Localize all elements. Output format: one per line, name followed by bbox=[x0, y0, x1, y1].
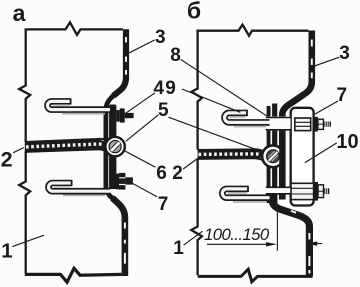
svg-text:100...150: 100...150 bbox=[204, 225, 270, 244]
svg-text:8: 8 bbox=[170, 45, 181, 66]
svg-text:10: 10 bbox=[336, 131, 358, 153]
svg-text:2: 2 bbox=[172, 163, 183, 184]
svg-text:7: 7 bbox=[158, 194, 169, 215]
svg-text:7: 7 bbox=[337, 85, 348, 106]
svg-text:4: 4 bbox=[154, 78, 165, 99]
svg-text:9: 9 bbox=[165, 78, 176, 99]
svg-text:3: 3 bbox=[339, 43, 350, 64]
svg-text:1: 1 bbox=[173, 238, 184, 259]
svg-text:2: 2 bbox=[1, 148, 13, 172]
svg-text:6: 6 bbox=[156, 163, 167, 184]
svg-text:3: 3 bbox=[155, 27, 166, 48]
svg-text:б: б bbox=[187, 0, 201, 24]
svg-text:а: а bbox=[13, 0, 26, 26]
svg-text:5: 5 bbox=[158, 100, 169, 121]
svg-text:1: 1 bbox=[1, 240, 12, 263]
